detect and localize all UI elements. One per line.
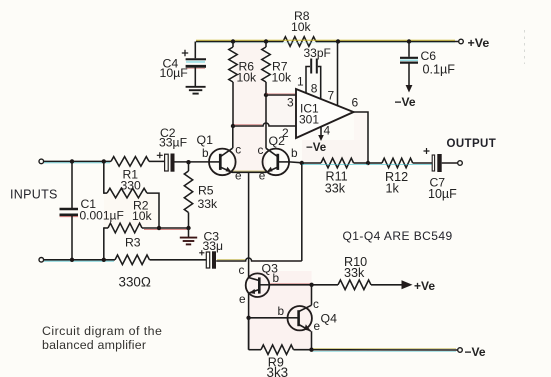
svg-text:b: b [291, 146, 298, 160]
resistor R11 [321, 158, 354, 168]
wire +Ve top rail right segment [316, 41, 459, 43]
pin 4 lead with arrow [320, 127, 322, 136]
wire R12 to C7 [413, 162, 433, 164]
wire C7 to output [442, 162, 458, 164]
svg-text:b: b [278, 304, 285, 318]
wire -Ve bottom [312, 349, 458, 351]
svg-text:c: c [235, 142, 241, 156]
wire C2 to Q1 base [175, 161, 210, 163]
svg-text:Q4: Q4 [321, 312, 338, 326]
node Q3e-Q4b [246, 316, 250, 320]
svg-text:b: b [273, 271, 280, 285]
node rail-R6 [231, 39, 235, 43]
svg-text:Q1-Q4 ARE BC549: Q1-Q4 ARE BC549 [343, 229, 453, 243]
wire node to R12 [368, 162, 382, 164]
wire R10 to arrow [371, 284, 402, 286]
resistor R6 [232, 42, 234, 48]
wire R7 to node [265, 82, 267, 95]
pin 1 lead [306, 67, 310, 94]
capacitor C4 lead bottom [194, 68, 196, 87]
svg-text:6: 6 [352, 96, 359, 110]
svg-text:33pF: 33pF [304, 46, 331, 60]
resistor R1 [111, 157, 149, 167]
svg-text:7: 7 [328, 89, 335, 103]
wire R3 stub [104, 227, 108, 229]
transistor Q2 [263, 148, 290, 175]
capacitor C1 lead top [71, 161, 73, 208]
wire R1 to C2 [149, 160, 165, 162]
svg-text:+Ve: +Ve [414, 279, 435, 293]
wire Q4 base [249, 317, 288, 319]
svg-text:0.1µF: 0.1µF [423, 62, 456, 76]
wire Q1/Q2 emitter link [232, 171, 266, 173]
capacitor C1 lead bottom [71, 216, 73, 260]
pin 8 lead [318, 67, 321, 99]
wire 330 to C3 [150, 259, 207, 261]
svg-text:1k: 1k [386, 181, 400, 195]
svg-text:3: 3 [287, 96, 294, 110]
wire R2 corner [147, 193, 159, 228]
shaded scan tint right of op-amp [354, 112, 368, 140]
wire Q3 base to node [269, 284, 311, 286]
svg-text:10µF: 10µF [160, 66, 189, 80]
terminal OUTPUT [458, 161, 463, 166]
svg-text:8: 8 [311, 82, 318, 96]
capacitor 33pF plates [310, 59, 312, 74]
node R6-pin2 [231, 124, 235, 128]
wire +Ve top rail left segment [196, 41, 283, 43]
svg-text:e: e [239, 292, 246, 306]
svg-text:33k: 33k [344, 266, 365, 280]
shaded scan tint R2/R3 area [104, 193, 159, 228]
node Q3base-R10-Q4c [309, 283, 313, 287]
node rail-pin7 [336, 39, 340, 43]
transistor Q3 [246, 273, 270, 297]
node Q4e-line [309, 348, 313, 352]
svg-text:R5: R5 [198, 184, 214, 198]
wire pin6 output [354, 112, 369, 163]
transistor Q4 [288, 305, 312, 331]
svg-text:33k: 33k [325, 181, 346, 195]
wire R11 to node [354, 162, 368, 164]
svg-text:C6: C6 [421, 49, 437, 63]
svg-text:4: 4 [324, 124, 331, 138]
node input-C1 [70, 159, 74, 163]
resistor R5 [188, 162, 190, 171]
resistor R7 [265, 42, 267, 48]
capacitor C6 lead top [408, 42, 410, 57]
shaded scan tint above R11 [302, 140, 368, 163]
svg-text:Circuit digram of the: Circuit digram of the [42, 324, 162, 338]
svg-text:10k: 10k [132, 209, 153, 223]
capacitor C6 lead bottom with arrow [408, 64, 410, 87]
shaded scan tint left of op-amp [267, 95, 296, 126]
wire pin2 with hop over Q2 collector line [233, 123, 296, 126]
wire pin3 [266, 94, 296, 96]
svg-text:c: c [258, 143, 264, 157]
wire emitters to Q3 collector [248, 172, 250, 277]
capacitor C7 plates [432, 155, 434, 171]
svg-text:+Ve: +Ve [468, 36, 490, 50]
capacitor C4 plus [182, 50, 188, 56]
wire R2 stub [104, 192, 107, 194]
wire C3 to Q2 base node with hop [216, 258, 302, 261]
wire R3 to ground node [142, 227, 159, 229]
wire rail chroma fringe [196, 39, 455, 41]
svg-text:e: e [314, 319, 321, 333]
svg-text:1: 1 [297, 75, 304, 89]
resistor R9 [249, 349, 261, 351]
capacitor C2 plates [165, 154, 169, 171]
node Q2base-R11 [300, 161, 304, 165]
wire Q4 emitter down [311, 331, 313, 350]
svg-text:c: c [313, 297, 319, 311]
terminal +Ve [459, 39, 464, 44]
terminal input bottom [39, 258, 44, 263]
node input2-bus [102, 258, 106, 262]
resistor R12 [382, 158, 413, 168]
op-amp IC1 body [296, 89, 354, 138]
wire Q2 collector down [265, 95, 267, 148]
svg-text:Q2: Q2 [269, 134, 286, 148]
capacitor C4 plates [186, 58, 206, 60]
wire node to R10 [312, 284, 338, 286]
terminal input top [39, 159, 44, 164]
wire Q2 base to node [289, 161, 302, 164]
wire input top [44, 160, 111, 162]
svg-text:−Ve: −Ve [306, 142, 326, 154]
resistor R2 [107, 188, 147, 198]
node rail-R7 [264, 39, 268, 43]
resistor R10 [338, 280, 371, 290]
capacitor C7 plus [424, 148, 430, 154]
capacitor C3 plates [206, 252, 209, 268]
wire Q3e to R9 [248, 318, 250, 350]
ground below R5 [180, 228, 197, 244]
capacitor C2 plus [157, 152, 163, 158]
svg-text:3k3: 3k3 [267, 365, 289, 377]
svg-text:0.001µF: 0.001µF [80, 208, 124, 222]
shaded scan tint between Q1/Q2 collector columns [234, 42, 267, 171]
svg-text:33μ: 33μ [203, 239, 224, 253]
svg-text:10k: 10k [237, 71, 258, 85]
svg-text:10µF: 10µF [428, 187, 457, 201]
svg-text:330Ω: 330Ω [119, 274, 151, 289]
svg-text:balanced amplifier: balanced amplifier [42, 338, 146, 352]
wire Q2 base node vertical [301, 163, 303, 261]
capacitor C1 plates [60, 208, 79, 211]
terminal -Ve [458, 348, 463, 353]
wire Q3 emitter down [248, 293, 250, 350]
capacitor C4 lead top [194, 42, 196, 59]
svg-text:b: b [202, 146, 209, 160]
shaded scan tint Q3/Q4 area [249, 271, 312, 350]
svg-text:33µF: 33µF [159, 136, 187, 150]
resistor 330ohm [115, 255, 150, 265]
node C2-R5 [186, 160, 190, 164]
wire input bottom [44, 259, 115, 261]
node R2-R3 [157, 226, 161, 230]
ground below C4 [186, 86, 206, 88]
arrow +Ve [402, 280, 413, 289]
svg-text:−Ve: −Ve [395, 95, 416, 109]
resistor R3 [108, 223, 142, 233]
svg-text:−Ve: −Ve [465, 345, 486, 359]
wire node to R11 [302, 162, 321, 164]
node R5-ground [186, 226, 190, 230]
wire left bus upper segment [103, 161, 105, 193]
svg-text:10k: 10k [272, 71, 293, 85]
wire Q4 collector up [311, 285, 313, 305]
capacitor C6 plates [400, 57, 418, 59]
node input2-C1 [70, 258, 74, 262]
svg-text:10k: 10k [291, 20, 312, 34]
wire R6 to Q1 collector [232, 82, 234, 126]
pin 7 lead [337, 42, 339, 106]
svg-text:R3: R3 [125, 235, 141, 249]
wire Q1 collector up [232, 126, 234, 148]
svg-text:c: c [239, 263, 245, 277]
svg-text:INPUTS: INPUTS [10, 188, 58, 202]
node R7-pin3 [264, 93, 268, 97]
svg-text:33k: 33k [198, 197, 219, 211]
svg-text:Q1: Q1 [197, 133, 214, 147]
svg-text:OUTPUT: OUTPUT [447, 138, 497, 150]
node rail-C6 [407, 39, 411, 43]
transistor Q1 [209, 148, 236, 175]
node R11-R12-pin6 [366, 161, 370, 165]
resistor R8 [283, 37, 316, 47]
node input-R123 [102, 159, 106, 163]
svg-text:301: 301 [299, 113, 319, 127]
wire R11 line chroma [302, 163, 368, 165]
capacitor C3 plus [199, 250, 204, 255]
wire left bus lower segment [103, 227, 105, 259]
scan artifact dashes [524, 30, 526, 64]
